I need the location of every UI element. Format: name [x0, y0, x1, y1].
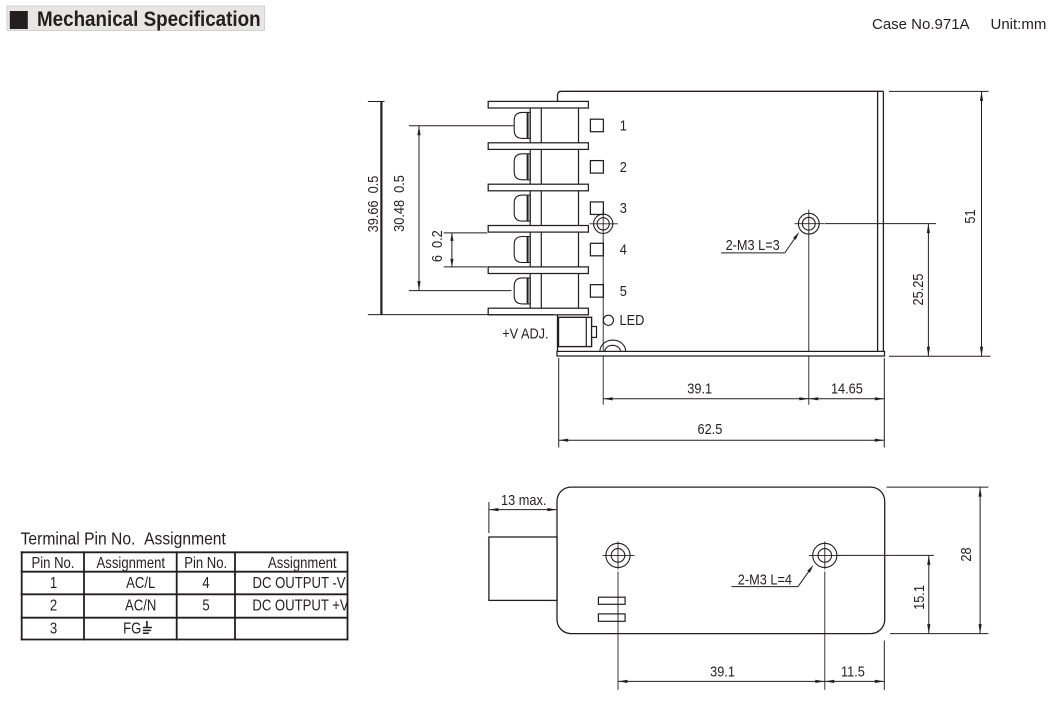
dim 62.5 right arrow [875, 439, 885, 442]
dim 39.1 bottom dimension line [618, 680, 825, 682]
dim 39.1 bottom left arrow [618, 680, 628, 683]
dim 28 dimension line [979, 487, 981, 633]
top view chassis outline (top edge with corner) [558, 91, 884, 101]
FG earth ground symbol [143, 621, 152, 633]
dim 28 top extension [887, 486, 989, 488]
potentiometer inner line [585, 318, 587, 346]
dim 28 bottom extension [890, 633, 988, 635]
dim 14.65 left arrow [809, 397, 819, 400]
svg-text:Unit:mm: Unit:mm [991, 16, 1047, 33]
terminal screw 1 flange line [527, 113, 529, 138]
svg-text:Pin No.: Pin No. [184, 555, 227, 572]
dim 6 bottom arrow [450, 259, 453, 267]
top view chassis right edge outer line [882, 91, 884, 351]
dim 51 bottom arrow [980, 347, 983, 357]
dim 13max right arrow [547, 508, 557, 511]
dim 15.1 extension line [838, 554, 934, 556]
svg-text:Assignment: Assignment [97, 555, 166, 572]
dim 11.5 right arrow [875, 680, 885, 683]
svg-text:AC/L: AC/L [126, 575, 155, 592]
svg-text:LED: LED [620, 311, 645, 328]
terminal screw 4 head [514, 237, 530, 263]
svg-text:11.5: 11.5 [841, 662, 865, 679]
mounting hole A inner circle [597, 218, 609, 230]
dim 39.1 left arrow [603, 397, 613, 400]
svg-text:62.5: 62.5 [697, 420, 722, 437]
terminal separator bar 1 [488, 101, 588, 108]
svg-text:FG: FG [123, 620, 141, 637]
dim left extension line x=558.7 [558, 358, 560, 448]
mounting hole C vertical crosshair [617, 542, 619, 570]
mounting hole C inner circle [611, 549, 625, 563]
terminal separator bar 2 [488, 143, 588, 150]
svg-text:14.65: 14.65 [831, 379, 863, 396]
dim 15.1 dimension line [928, 555, 930, 633]
terminal screw 2 flange line [527, 154, 529, 179]
bottom view terminal protrusion [489, 537, 557, 600]
svg-text:Assignment: Assignment [268, 555, 337, 572]
svg-text:39.66 0.5: 39.66 0.5 [364, 175, 381, 232]
chassis left edge lower segment [557, 315, 559, 356]
mounting hole C horizontal crosshair [603, 554, 635, 556]
dim 14.65 dimension line [809, 398, 885, 400]
solder pin 5 square [590, 285, 603, 298]
dim 39.66 bottom extension line [368, 314, 553, 316]
svg-text:25.25: 25.25 [909, 273, 926, 305]
svg-text:+V ADJ.: +V ADJ. [502, 324, 548, 341]
terminal screw 5 flange line [527, 278, 529, 303]
mounting hole D centerline [824, 572, 826, 690]
dim right extension x=884.3 bottom view [883, 641, 885, 690]
svg-text:28: 28 [957, 547, 974, 561]
vent slot 2 [598, 614, 625, 621]
terminal screw 3 head [514, 195, 530, 221]
dim 28 top arrow [979, 487, 982, 497]
mounting hole B outer circle [798, 213, 819, 234]
dim 6 dimension line [451, 233, 453, 267]
dim 13max left extension tick [488, 502, 490, 533]
terminal channel left rail [529, 102, 531, 315]
svg-text:3: 3 [620, 199, 627, 216]
mounting hole D outer circle [813, 543, 837, 567]
svg-text:5: 5 [620, 282, 627, 299]
svg-text:2-M3 L=3: 2-M3 L=3 [726, 236, 780, 253]
svg-text:2-M3 L=4: 2-M3 L=4 [738, 570, 792, 587]
mounting hole A outer circle [594, 214, 613, 233]
terminal separator bar 3 [488, 184, 588, 191]
dim 30.48 bottom arrow [417, 281, 420, 291]
mounting hole D horizontal crosshair [809, 554, 841, 556]
svg-text:39.1: 39.1 [687, 379, 712, 396]
2-M3 L=3 leader diagonal [785, 235, 797, 253]
dim 51 top arrow [980, 91, 983, 101]
mounting hole A vertical centerline [602, 210, 604, 405]
svg-text:6 0.2: 6 0.2 [428, 230, 445, 262]
dim 11.5 left arrow [825, 680, 835, 683]
mounting hole D inner circle [818, 549, 832, 563]
vent slot 1 [598, 597, 625, 604]
svg-text:13 max.: 13 max. [501, 491, 546, 508]
dim 13max dimension line [489, 509, 557, 511]
svg-text:1: 1 [620, 116, 627, 133]
dim 51 top extension [889, 90, 989, 92]
table cell texts [31, 555, 348, 638]
section header bar [7, 6, 265, 31]
dim 51 dimension line [981, 91, 983, 356]
svg-text:2: 2 [620, 158, 627, 175]
LED indicator circle [603, 315, 613, 325]
svg-text:5: 5 [202, 597, 209, 614]
dim 62.5 dimension line [559, 439, 885, 441]
dim 13max left arrow [489, 508, 499, 511]
2-M3 L=4 leader underline [731, 586, 798, 588]
2-M3 L=3 leader underline [721, 252, 785, 254]
dim 6 top extension [444, 232, 488, 234]
svg-text:4: 4 [620, 240, 627, 257]
svg-text:2: 2 [50, 597, 57, 614]
svg-text:Terminal Pin No. Assignment: Terminal Pin No. Assignment [21, 528, 227, 548]
dim 30.48 bottom extension [409, 290, 512, 292]
mounting hole B horizontal crosshair [795, 223, 825, 225]
svg-text:15.1: 15.1 [910, 585, 927, 610]
bottom view body outline [557, 487, 885, 633]
potentiometer +V ADJ body [559, 317, 592, 346]
potentiometer side tab [592, 327, 597, 338]
mounting hole C centerline [617, 572, 619, 690]
svg-text:Case No.971A: Case No.971A [872, 16, 970, 33]
dim 39.1 dimension line [603, 398, 809, 400]
dim 39.66 top tick [368, 101, 385, 103]
terminal screw 1 head [514, 112, 530, 138]
dim 30.48 top extension [409, 125, 514, 127]
2-M3 L=3 leader arrowhead [793, 232, 799, 240]
dim right extension line x=884.3 [883, 358, 885, 448]
terminal screw 5 head [514, 278, 530, 304]
terminal block right edge [578, 102, 580, 315]
dim 62.5 left arrow [559, 439, 569, 442]
svg-text:1: 1 [50, 575, 57, 592]
mounting hole A horizontal crosshair [589, 223, 618, 225]
dim 25.25 dimension line [927, 224, 929, 357]
solder pin 2 square [590, 161, 603, 174]
dim 51 bottom extension [889, 355, 991, 357]
dim 28 bottom arrow [979, 624, 982, 634]
dim 11.5 dimension line [825, 680, 885, 682]
svg-text:DC OUTPUT +V: DC OUTPUT +V [252, 597, 349, 614]
terminal separator bar 4 [488, 226, 588, 233]
dim 6 top arrow [450, 233, 453, 241]
header black square icon [10, 11, 28, 29]
terminal screw 2 head [514, 154, 530, 180]
pin assignment table grid [21, 551, 349, 640]
mounting hole D vertical crosshair [824, 542, 826, 570]
mounting hole C outer circle [606, 543, 630, 567]
top view chassis right edge inner line [877, 91, 879, 351]
solder pin 4 square [590, 243, 603, 256]
dim 15.1 bottom arrow [927, 624, 930, 634]
solder pin 3 square [590, 202, 603, 215]
dim 14.65 right arrow [875, 397, 885, 400]
dim 39.1 bottom right arrow [815, 680, 825, 683]
svg-text:4: 4 [202, 575, 209, 592]
dim 25.25 bottom arrow [927, 347, 930, 357]
mounting hole B vertical centerline [808, 210, 810, 405]
mounting hole B inner circle [802, 217, 815, 230]
svg-text:3: 3 [50, 620, 57, 637]
dim 30.48 dimension line [418, 126, 420, 291]
2-M3 L=4 leader arrowhead [807, 565, 813, 573]
solder pin 1 square [590, 119, 603, 132]
svg-text:51: 51 [961, 209, 978, 223]
dim 15.1 top arrow [927, 555, 930, 565]
2-M3 L=4 leader diagonal [798, 568, 811, 586]
dim 6 bottom extension [444, 266, 488, 268]
terminal screw 4 flange line [527, 237, 529, 262]
dim 39.66 dimension line [380, 102, 382, 315]
chassis bottom flange [557, 351, 885, 356]
dim 39.1 right arrow [799, 397, 809, 400]
terminal channel right rail [540, 102, 542, 315]
svg-text:30.48 0.5: 30.48 0.5 [390, 175, 407, 232]
dim 25.25 top arrow [927, 224, 930, 234]
svg-text:Mechanical Specification: Mechanical Specification [37, 8, 261, 31]
edge bushing outer arc [600, 340, 626, 351]
terminal separator bar 6 [488, 308, 588, 315]
terminal screw 3 flange line [527, 196, 529, 221]
terminal separator bar 5 [488, 267, 588, 274]
svg-text:39.1: 39.1 [710, 662, 735, 679]
svg-text:Pin No.: Pin No. [31, 555, 74, 572]
dim 30.48 top arrow [417, 126, 420, 136]
edge bushing inner arc [605, 345, 621, 351]
dim 25.25 top extension [825, 223, 936, 225]
svg-text:DC OUTPUT -V: DC OUTPUT -V [252, 575, 345, 592]
svg-text:AC/N: AC/N [125, 597, 156, 614]
